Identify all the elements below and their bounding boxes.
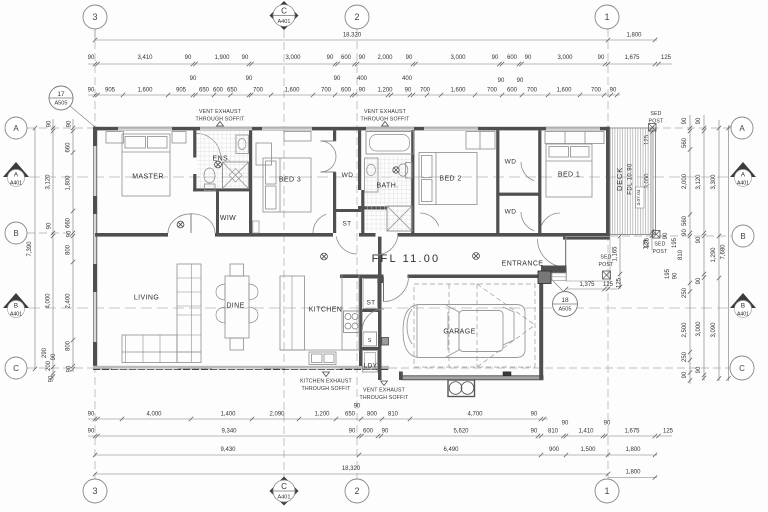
svg-text:KITCHEN: KITCHEN xyxy=(309,307,343,314)
entry jamb block xyxy=(378,278,384,283)
svg-text:810: 810 xyxy=(548,429,559,435)
svg-text:900: 900 xyxy=(549,447,560,453)
svg-text:250: 250 xyxy=(682,287,688,298)
ensuite door arc xyxy=(197,134,221,158)
svg-text:90: 90 xyxy=(498,78,505,84)
ensuite vanity xyxy=(236,135,249,154)
svg-text:90: 90 xyxy=(88,412,95,418)
svg-text:WIW: WIW xyxy=(220,215,236,222)
svg-text:90: 90 xyxy=(382,429,389,435)
grid line 2 (vertical x=357) xyxy=(356,29,358,479)
svg-text:WD: WD xyxy=(342,172,354,179)
svg-text:600: 600 xyxy=(507,88,518,94)
svg-text:C: C xyxy=(739,364,745,373)
svg-text:2,400: 2,400 xyxy=(66,293,72,309)
svg-text:650: 650 xyxy=(199,88,210,94)
wall: bath/hall east x=362 lower xyxy=(361,190,364,233)
west wall windows xyxy=(93,146,96,196)
svg-text:3,410: 3,410 xyxy=(137,55,153,61)
svg-text:3,000: 3,000 xyxy=(450,55,466,61)
master bed xyxy=(122,134,170,196)
WD closet double doors (bed wing) xyxy=(321,141,337,157)
svg-text:BED 2: BED 2 xyxy=(439,176,461,183)
svg-text:1,800: 1,800 xyxy=(66,175,72,191)
svg-text:560: 560 xyxy=(682,137,688,148)
svg-text:90: 90 xyxy=(47,120,53,127)
bed2 wardrobe boxes xyxy=(466,132,495,150)
svg-text:2,500: 2,500 xyxy=(682,322,688,338)
svg-text:3,120: 3,120 xyxy=(46,174,52,190)
bath symbol xyxy=(393,167,399,173)
svg-text:125: 125 xyxy=(603,282,614,288)
svg-text:90: 90 xyxy=(562,421,569,427)
svg-text:90: 90 xyxy=(88,429,95,435)
svg-text:WD: WD xyxy=(505,159,517,166)
svg-text:DINE: DINE xyxy=(226,303,244,310)
svg-text:90: 90 xyxy=(492,55,499,61)
wall: ST south y=309 xyxy=(362,309,378,312)
bed2 door arc xyxy=(420,213,439,226)
garage door sensor box xyxy=(503,372,511,376)
svg-text:A401: A401 xyxy=(737,181,749,187)
svg-text:700: 700 xyxy=(420,88,431,94)
svg-text:90: 90 xyxy=(334,76,341,82)
entry post xyxy=(538,271,551,284)
svg-text:1,200: 1,200 xyxy=(377,88,393,94)
bed3 door arc xyxy=(313,214,326,233)
grid bubble A right xyxy=(731,117,753,139)
thickened wall behind entrance/deck xyxy=(563,237,610,240)
svg-text:GARAGE: GARAGE xyxy=(443,329,475,336)
svg-text:3,000: 3,000 xyxy=(557,55,573,61)
svg-text:1,800: 1,800 xyxy=(625,470,641,476)
bottom dimension row 3 xyxy=(95,454,657,456)
ceiling symbol hall xyxy=(177,221,184,228)
garage internal door leaf+arc xyxy=(383,277,385,302)
svg-text:800: 800 xyxy=(66,244,72,255)
svg-text:90: 90 xyxy=(47,222,53,229)
svg-text:90: 90 xyxy=(406,55,413,61)
svg-text:A401: A401 xyxy=(277,495,290,501)
svg-text:1,675: 1,675 xyxy=(624,55,640,61)
grid line C (horizontal y=368) xyxy=(27,367,95,369)
svg-text:90: 90 xyxy=(67,365,73,372)
grid line 3 (vertical x=95) xyxy=(94,29,96,479)
bath toilet xyxy=(398,164,408,176)
exterior wall: bottom of living/kitchen y=366-370 xyxy=(93,366,389,370)
svg-text:90: 90 xyxy=(604,421,611,427)
small appliance S box xyxy=(363,332,377,346)
svg-text:125: 125 xyxy=(617,277,623,288)
top dimension row 1: overall 18,320 and deck 1,800 xyxy=(95,39,657,41)
section line A/A401 (horizontal y=177) xyxy=(29,176,730,178)
svg-text:90: 90 xyxy=(349,429,356,435)
svg-text:A401: A401 xyxy=(737,312,749,318)
svg-text:90: 90 xyxy=(246,76,253,82)
exterior wall: east end of bedroom wing x=606-610 xyxy=(606,127,610,237)
wall: bed2/WD closets x=496 xyxy=(496,130,499,233)
svg-text:90: 90 xyxy=(696,277,702,284)
wall: garage/laundry west x=378-381.5 xyxy=(378,237,382,380)
wall: ensuite/bed3 x=249-252 xyxy=(249,130,252,233)
top dimension row 2: room dims xyxy=(88,63,672,65)
svg-text:18: 18 xyxy=(561,297,569,304)
svg-text:1,165: 1,165 xyxy=(613,246,619,262)
svg-text:1,500: 1,500 xyxy=(580,447,596,453)
svg-text:BED 1: BED 1 xyxy=(558,172,580,179)
laundry tub xyxy=(363,351,378,373)
svg-text:A505: A505 xyxy=(54,100,67,106)
bed1 wardrobe xyxy=(545,132,604,144)
bottom dimension row 1 xyxy=(88,418,548,420)
svg-text:5,620: 5,620 xyxy=(453,429,469,435)
svg-text:4,000: 4,000 xyxy=(146,412,162,418)
svg-text:700: 700 xyxy=(321,88,332,94)
svg-text:3,300: 3,300 xyxy=(711,174,717,190)
svg-text:1,600: 1,600 xyxy=(137,88,153,94)
svg-text:2,090: 2,090 xyxy=(269,412,285,418)
svg-text:90: 90 xyxy=(190,76,197,82)
grid bubble C right xyxy=(730,356,754,380)
svg-text:400: 400 xyxy=(402,76,413,82)
svg-text:18,320: 18,320 xyxy=(343,33,362,39)
entry steps dark bar xyxy=(541,266,567,274)
svg-text:600: 600 xyxy=(341,55,352,61)
svg-text:810: 810 xyxy=(388,412,399,418)
wall: WIW west x=216 xyxy=(216,191,219,233)
section marker C/A401 top xyxy=(270,1,299,30)
svg-text:90: 90 xyxy=(185,55,192,61)
svg-text:9,430: 9,430 xyxy=(220,447,236,453)
grid bubble 1 bottom xyxy=(595,479,619,503)
svg-text:C: C xyxy=(281,7,287,16)
section marker B/A401 right xyxy=(730,293,756,308)
exterior wall: garage south y=376-380 xyxy=(402,376,543,380)
north wall windows xyxy=(118,127,172,130)
svg-text:FDL 10.90: FDL 10.90 xyxy=(628,163,634,195)
grid line 1 (vertical x=608) xyxy=(607,29,609,479)
svg-text:3,090: 3,090 xyxy=(711,322,717,338)
svg-text:125: 125 xyxy=(661,55,672,61)
callout 17/A505 with leader xyxy=(70,106,95,127)
svg-text:195: 195 xyxy=(665,268,671,279)
svg-text:LDY: LDY xyxy=(364,363,378,370)
left dimension column 2 xyxy=(52,119,54,380)
WD bottom closet door xyxy=(521,212,534,231)
svg-text:WD: WD xyxy=(505,209,517,216)
entry porch slab xyxy=(566,237,610,281)
svg-text:3,120: 3,120 xyxy=(696,174,702,190)
svg-text:ENS.: ENS. xyxy=(213,156,231,163)
section line B/A401 (horizontal y=308) xyxy=(29,307,730,309)
section line C/A401 (vertical x=284) xyxy=(283,30,285,477)
svg-text:700: 700 xyxy=(487,88,498,94)
deck posts xyxy=(649,124,657,132)
exterior wall: garage east x=539-543 xyxy=(539,275,543,381)
svg-text:1,600: 1,600 xyxy=(284,88,300,94)
wall: under ensuite y=188.4 xyxy=(193,188,252,191)
svg-text:3: 3 xyxy=(92,12,97,22)
svg-text:600: 600 xyxy=(213,88,224,94)
svg-text:B: B xyxy=(14,303,18,310)
svg-text:90: 90 xyxy=(242,55,249,61)
master wardrobe boxes xyxy=(106,132,124,144)
svg-text:BED 3: BED 3 xyxy=(279,177,301,184)
svg-text:C: C xyxy=(13,364,19,373)
wall: between WD closets y=193 xyxy=(499,193,540,196)
hall opening arcs to living xyxy=(336,237,357,254)
bath vanity xyxy=(365,158,379,192)
bottom dimension row 2 xyxy=(88,435,672,437)
svg-text:250: 250 xyxy=(682,351,688,362)
grid bubble C left xyxy=(5,357,27,379)
svg-text:650: 650 xyxy=(345,412,356,418)
svg-text:90: 90 xyxy=(531,429,538,435)
svg-text:560: 560 xyxy=(682,215,688,226)
svg-text:90: 90 xyxy=(696,117,702,124)
shower lower (bath) xyxy=(387,206,412,231)
svg-text:B: B xyxy=(13,229,18,238)
living sofa xyxy=(122,335,177,363)
svg-text:B: B xyxy=(740,232,745,241)
dining chairs xyxy=(230,264,244,276)
bath floor tiles xyxy=(365,156,412,231)
svg-text:290: 290 xyxy=(42,347,48,358)
svg-text:90: 90 xyxy=(359,55,366,61)
svg-text:90: 90 xyxy=(531,412,538,418)
svg-text:90: 90 xyxy=(88,55,95,61)
svg-text:1,290: 1,290 xyxy=(711,247,717,263)
svg-text:90: 90 xyxy=(517,78,524,84)
svg-text:ENTRANCE: ENTRANCE xyxy=(502,261,544,268)
wall: WD-ST column x=358 xyxy=(358,130,361,190)
svg-text:2,000: 2,000 xyxy=(377,55,393,61)
living shelf/chaise column xyxy=(177,264,201,363)
section marker C/A401 bottom xyxy=(270,477,299,506)
grid bubble 1 top xyxy=(595,5,619,29)
grid bubble 2 bottom xyxy=(345,479,369,503)
ensuite floor tiles xyxy=(197,131,249,188)
svg-text:3.07.04: 3.07.04 xyxy=(636,189,642,205)
double doors hall/master y=233 x=168-215 xyxy=(168,214,191,233)
wall: bath/bed2 x=411 xyxy=(411,130,414,233)
svg-text:1,600: 1,600 xyxy=(450,88,466,94)
svg-text:A: A xyxy=(739,124,745,133)
exterior wall: left (west) x=93-97 xyxy=(93,127,97,370)
svg-text:125: 125 xyxy=(663,429,674,435)
svg-text:6,490: 6,490 xyxy=(443,447,459,453)
grid bubble A left xyxy=(5,117,27,139)
grid bubble 3 bottom xyxy=(83,479,107,503)
svg-text:4,700: 4,700 xyxy=(467,412,483,418)
svg-text:1,900: 1,900 xyxy=(214,55,230,61)
svg-text:90: 90 xyxy=(598,55,605,61)
entry door arc + leaf xyxy=(565,239,567,268)
svg-text:90: 90 xyxy=(327,55,334,61)
svg-text:1,410: 1,410 xyxy=(578,429,594,435)
svg-text:1,200: 1,200 xyxy=(314,412,330,418)
section marker A/A401 left xyxy=(3,162,29,177)
left dimension column 7,390 xyxy=(34,128,36,369)
right dimension column 7,680 xyxy=(728,125,730,381)
bath tub xyxy=(366,132,414,155)
svg-text:9,340: 9,340 xyxy=(221,429,237,435)
bed 1 bed xyxy=(546,144,592,197)
wall: kitchen east column x=359-362 xyxy=(359,275,362,367)
svg-text:905: 905 xyxy=(105,88,116,94)
hot water tanks below garage xyxy=(448,380,475,397)
grid line B (horizontal y=233) xyxy=(27,232,68,234)
svg-text:2: 2 xyxy=(354,486,359,496)
svg-text:700: 700 xyxy=(527,88,538,94)
svg-text:KITCHEN EXHAUST: KITCHEN EXHAUST xyxy=(300,379,352,385)
svg-text:POST: POST xyxy=(649,119,665,125)
svg-text:90: 90 xyxy=(67,230,73,237)
svg-text:THROUGH SOFFIT: THROUGH SOFFIT xyxy=(360,395,410,401)
WD top closet door xyxy=(521,162,534,181)
svg-text:90: 90 xyxy=(51,353,57,360)
wall: bed3/hall x=333 xyxy=(333,130,336,141)
exterior wall: top (north) y=127-130.5 xyxy=(93,127,610,131)
grid bubble 3 top xyxy=(94,29,96,40)
left dimension column 3 xyxy=(72,119,74,372)
grid bubble B left xyxy=(5,222,27,244)
svg-text:3: 3 xyxy=(92,486,97,496)
svg-text:125: 125 xyxy=(644,239,650,250)
svg-text:810: 810 xyxy=(678,249,684,260)
right dimension column 3,300/3,090 xyxy=(718,120,720,381)
svg-text:2: 2 xyxy=(354,12,359,22)
grid bubble B right xyxy=(732,225,754,247)
svg-text:FFL 11.00: FFL 11.00 xyxy=(372,253,441,265)
entrance dims 1,375 / 125 xyxy=(566,288,617,290)
wall: garage north / entry y=274.5-278 xyxy=(382,275,384,279)
wall: bath south pocket y=206 x=358-387 xyxy=(358,206,387,210)
svg-text:400: 400 xyxy=(357,76,368,82)
kitchen bench island xyxy=(280,276,305,350)
grid line A (horizontal y=128) xyxy=(27,127,731,129)
deck outline xyxy=(610,128,656,235)
dining table xyxy=(225,276,249,338)
svg-text:800: 800 xyxy=(367,412,378,418)
ensuite toilet xyxy=(204,168,215,183)
fridge box near ST xyxy=(363,279,378,309)
svg-text:90: 90 xyxy=(610,88,617,94)
dark utility box next to S xyxy=(382,338,389,346)
kitchen bottom counter + sink xyxy=(280,349,360,351)
svg-text:660: 660 xyxy=(66,217,72,228)
svg-text:90: 90 xyxy=(359,88,366,94)
svg-text:A401: A401 xyxy=(277,19,290,25)
svg-text:17: 17 xyxy=(57,91,65,98)
ST kitchen door arc xyxy=(362,309,384,331)
svg-text:90: 90 xyxy=(682,117,688,124)
svg-text:700: 700 xyxy=(591,88,602,94)
svg-text:90: 90 xyxy=(682,229,688,236)
grid bubble 2 top xyxy=(345,5,369,29)
svg-text:800: 800 xyxy=(66,340,72,351)
svg-text:7,680: 7,680 xyxy=(721,244,727,260)
kitchen tall counter + stove xyxy=(342,275,359,351)
svg-text:1,800: 1,800 xyxy=(626,33,642,39)
svg-text:90: 90 xyxy=(67,120,73,127)
svg-text:200: 200 xyxy=(46,360,52,371)
svg-text:90: 90 xyxy=(696,236,702,243)
svg-text:90: 90 xyxy=(525,55,532,61)
svg-text:A401: A401 xyxy=(10,181,22,187)
svg-text:3,000: 3,000 xyxy=(285,55,301,61)
svg-text:B: B xyxy=(741,303,745,310)
wall: LDY north y=347 xyxy=(362,347,378,350)
svg-text:905: 905 xyxy=(176,88,187,94)
svg-text:A: A xyxy=(13,124,19,133)
svg-text:18,320: 18,320 xyxy=(342,466,361,472)
svg-text:VENT EXHAUST: VENT EXHAUST xyxy=(363,388,406,394)
ensuite shower xyxy=(223,162,249,189)
svg-text:3,000: 3,000 xyxy=(696,321,702,337)
bottom dimension row 4: overall xyxy=(95,473,608,475)
garage door dashed outline xyxy=(414,284,535,367)
WIW corner shelf xyxy=(253,221,259,233)
svg-text:VENT EXHAUST: VENT EXHAUST xyxy=(364,109,407,115)
svg-text:DECK: DECK xyxy=(615,167,624,191)
garage car xyxy=(403,305,525,358)
svg-text:2,000: 2,000 xyxy=(682,173,688,189)
south wall windows xyxy=(112,366,178,369)
svg-text:ST: ST xyxy=(342,221,351,228)
svg-text:90: 90 xyxy=(405,88,412,94)
svg-text:7,390: 7,390 xyxy=(27,241,33,257)
svg-text:POST: POST xyxy=(653,249,669,255)
svg-text:MASTER: MASTER xyxy=(132,174,164,181)
svg-text:600: 600 xyxy=(363,429,374,435)
svg-text:A505: A505 xyxy=(558,306,571,312)
deck boards xyxy=(612,129,653,234)
svg-text:90: 90 xyxy=(49,375,55,382)
wall: kitchen/entry y=274.5 x=340-381 xyxy=(340,275,382,279)
svg-text:700: 700 xyxy=(253,88,264,94)
top dimension row 3: detail dims with staggered 90/400 labels xyxy=(88,94,620,96)
svg-text:BATH.: BATH. xyxy=(376,183,398,190)
wall: master/ensuite x=193 xyxy=(193,130,196,157)
svg-text:600: 600 xyxy=(341,88,352,94)
svg-text:SED: SED xyxy=(654,242,665,248)
svg-text:1: 1 xyxy=(604,486,609,496)
bed 3 bed xyxy=(263,158,311,212)
svg-text:1: 1 xyxy=(604,12,609,22)
svg-text:1,600: 1,600 xyxy=(556,88,572,94)
deck-post dim 1,165 xyxy=(619,236,621,289)
ensuite symbol xyxy=(215,161,222,168)
callout 18/A505 with leader xyxy=(548,276,563,291)
svg-text:1,375: 1,375 xyxy=(579,282,595,288)
svg-text:90: 90 xyxy=(354,404,361,410)
right dimension column 3,120/3,000 xyxy=(703,115,705,381)
section marker B/A401 left xyxy=(3,293,29,308)
svg-text:THROUGH SOFFIT: THROUGH SOFFIT xyxy=(302,386,352,392)
svg-text:SED: SED xyxy=(600,255,611,261)
interior wall: bedroom wing / living separation y=233-236.6 xyxy=(95,233,168,237)
svg-text:LIVING: LIVING xyxy=(134,295,159,302)
svg-text:A401: A401 xyxy=(10,312,22,318)
svg-text:POST: POST xyxy=(599,262,615,268)
bed1 door arc xyxy=(541,213,560,226)
svg-text:90: 90 xyxy=(663,232,669,239)
section marker A/A401 right xyxy=(730,162,756,177)
svg-text:90: 90 xyxy=(696,366,702,373)
svg-text:195: 195 xyxy=(672,237,678,248)
svg-text:4,000: 4,000 xyxy=(46,293,52,309)
